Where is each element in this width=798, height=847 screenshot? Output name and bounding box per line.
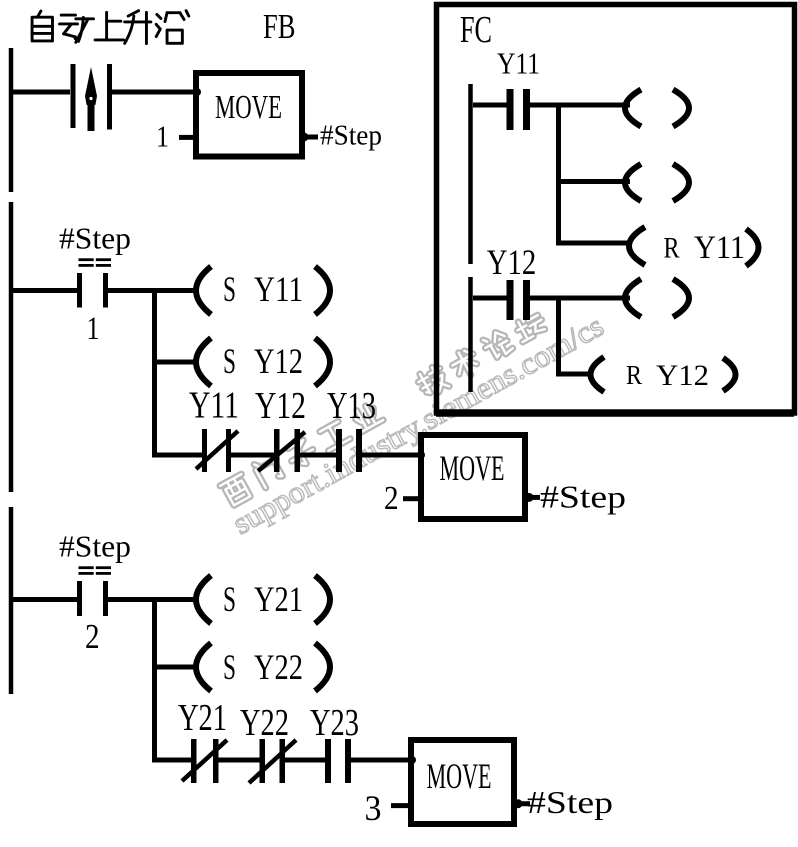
svg-text:2: 2	[384, 480, 399, 517]
svg-text:R: R	[664, 232, 680, 265]
svg-text:Y22: Y22	[254, 647, 303, 687]
svg-text:Y12: Y12	[254, 341, 303, 381]
svg-text:#Step: #Step	[540, 478, 626, 514]
svg-text:Y11: Y11	[189, 385, 239, 427]
svg-text:Y12: Y12	[487, 242, 537, 282]
svg-text:3: 3	[365, 788, 382, 828]
svg-text:R: R	[626, 360, 642, 390]
svg-text:Y23: Y23	[310, 702, 359, 744]
svg-text:Y21: Y21	[178, 697, 227, 739]
svg-text:#Step: #Step	[527, 784, 613, 820]
svg-text:Y12: Y12	[656, 359, 709, 392]
svg-text:Y22: Y22	[240, 702, 289, 744]
svg-text:S: S	[223, 579, 236, 619]
svg-text:#Step: #Step	[320, 120, 382, 152]
svg-text:Y21: Y21	[254, 579, 303, 619]
svg-text:Y13: Y13	[327, 385, 376, 427]
svg-text:S: S	[223, 647, 236, 687]
svg-text:Y12: Y12	[255, 385, 306, 427]
svg-text:FB: FB	[263, 7, 296, 46]
svg-text:S: S	[223, 269, 236, 309]
svg-text:MOVE: MOVE	[427, 756, 492, 796]
svg-text:Y11: Y11	[694, 230, 745, 266]
svg-text:#Step: #Step	[59, 220, 131, 255]
svg-text:MOVE: MOVE	[440, 448, 505, 488]
svg-text:Y11: Y11	[254, 269, 303, 309]
svg-text:MOVE: MOVE	[215, 89, 282, 126]
svg-text:1: 1	[87, 311, 100, 347]
svg-text:FC: FC	[460, 9, 492, 51]
svg-text:Y11: Y11	[497, 46, 540, 81]
svg-text:1: 1	[156, 119, 169, 154]
svg-text:S: S	[223, 341, 236, 381]
svg-text:2: 2	[85, 617, 100, 656]
svg-text:#Step: #Step	[59, 529, 131, 564]
